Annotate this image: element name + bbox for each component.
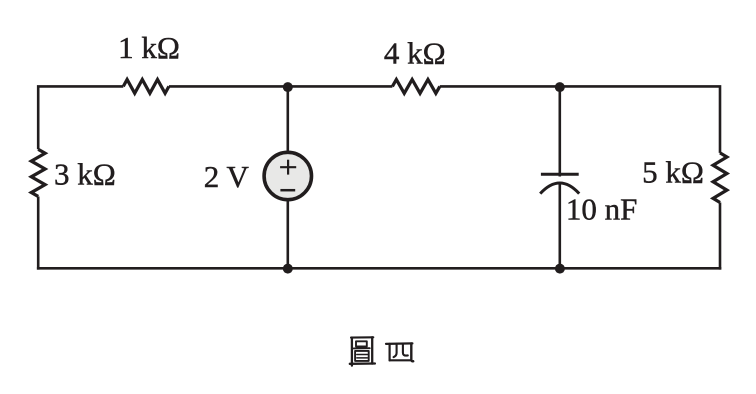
wire capacitor top lead: [558, 87, 561, 177]
node C (bottom middle junction): [283, 264, 293, 274]
capacitor C1 curved bottom plate: [540, 183, 579, 194]
wire top-right segment: [440, 86, 720, 152]
node D (bottom right junction): [555, 264, 565, 274]
wire top-left segment: [38, 86, 123, 149]
svg-text:5 kΩ: 5 kΩ: [642, 155, 704, 190]
wire capacitor bottom lead: [558, 184, 561, 269]
node B (top right junction): [555, 82, 565, 92]
voltage source U1 circle: [264, 152, 311, 199]
resistor R4 5 kΩ zigzag (right branch): [713, 153, 727, 203]
plus symbol of source: [280, 160, 296, 175]
wire source bottom lead: [286, 201, 289, 268]
caption character 圖: [350, 337, 375, 365]
svg-text:4 kΩ: 4 kΩ: [384, 35, 446, 70]
resistor R3 3 kΩ zigzag (left branch): [31, 149, 45, 196]
wire source top lead: [286, 87, 289, 151]
wire left-bottom segment: [37, 196, 40, 269]
wire top-middle segment: [169, 85, 393, 88]
capacitor C1 top plate: [541, 173, 579, 176]
wire bottom rail: [37, 267, 721, 270]
svg-text:2 V: 2 V: [204, 159, 250, 194]
node A (top middle junction): [283, 82, 293, 92]
wire right-bottom segment: [719, 202, 722, 269]
svg-text:10 nF: 10 nF: [566, 192, 638, 227]
resistor R2 4 kΩ zigzag: [392, 80, 439, 94]
caption character 四: [386, 343, 413, 361]
minus symbol of source: [280, 189, 295, 192]
svg-text:1 kΩ: 1 kΩ: [118, 30, 180, 65]
svg-text:3 kΩ: 3 kΩ: [54, 157, 116, 192]
resistor R1 1 kΩ zigzag: [123, 80, 169, 94]
